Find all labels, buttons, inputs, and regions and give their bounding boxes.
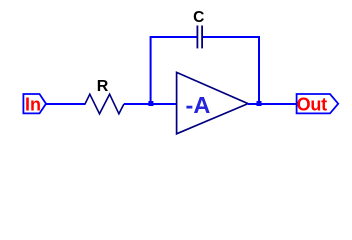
wire feedback right (capacitor down to output) — [203, 37, 259, 104]
wire amp output to Out — [248, 103, 297, 105]
node junction at amp output — [257, 101, 262, 106]
svg-text:C: C — [193, 9, 204, 26]
svg-text:Out: Out — [297, 94, 327, 114]
node junction at amp input — [148, 101, 153, 106]
resistor R1 — [85, 94, 124, 114]
op-amp U1 — [177, 72, 248, 133]
wire In to R — [46, 103, 86, 105]
port In — [23, 94, 46, 114]
wire R to amp input — [124, 103, 177, 105]
capacitor C1 — [197, 26, 202, 49]
svg-text:-A: -A — [186, 92, 211, 118]
svg-text:R: R — [97, 78, 109, 95]
label R — [97, 78, 109, 95]
svg-text:In: In — [25, 94, 41, 114]
label C — [193, 9, 204, 26]
wire feedback left (up from junction to capacitor) — [151, 37, 197, 104]
port Out — [297, 94, 339, 114]
